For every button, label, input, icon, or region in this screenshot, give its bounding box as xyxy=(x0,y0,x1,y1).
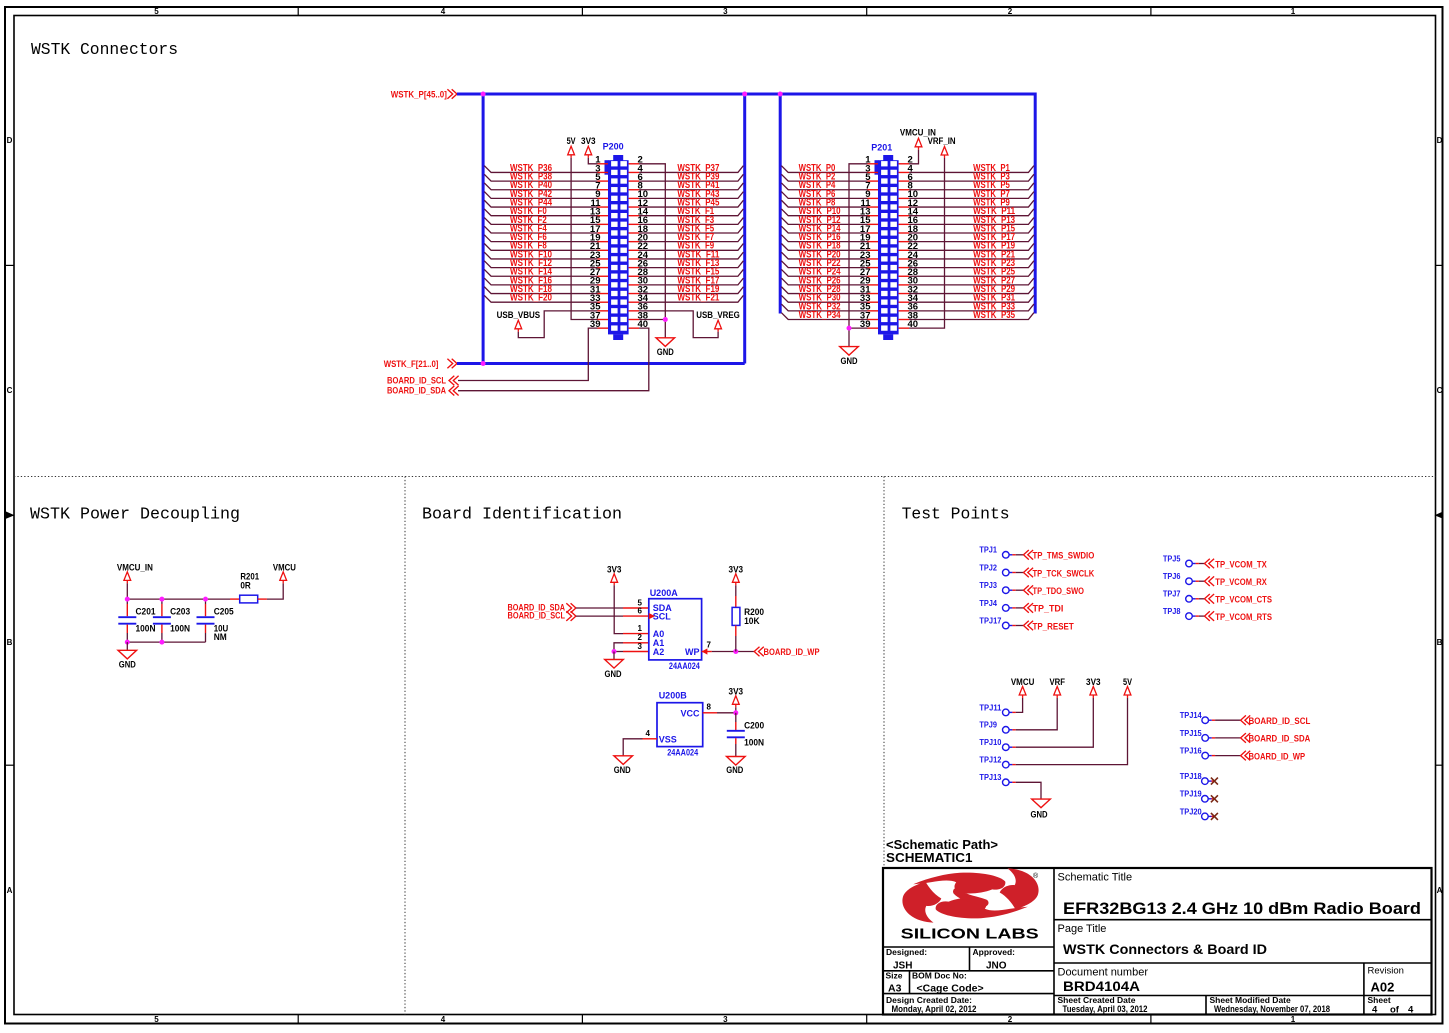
svg-text:TP_VCOM_TX: TP_VCOM_TX xyxy=(1215,559,1267,570)
wire VRF_IN to P201 pin 40 xyxy=(909,158,944,328)
test point TPJ14 net BOARD_ID_SCL xyxy=(1180,711,1311,727)
svg-text:C200: C200 xyxy=(744,721,764,731)
power symbol VMCU xyxy=(273,562,296,583)
svg-text:U200B: U200B xyxy=(659,690,688,700)
svg-text:7: 7 xyxy=(707,641,712,650)
svg-text:TPJ16: TPJ16 xyxy=(1180,747,1203,756)
svg-text:TPJ2: TPJ2 xyxy=(979,563,997,572)
wire WP to BOARD_ID_WP xyxy=(702,651,755,653)
wire WSTK_P14 (P201 pin 17) xyxy=(781,223,867,234)
wire WSTK_F8 (P200 pin 21) xyxy=(484,241,597,252)
port BOARD_ID_SCL xyxy=(387,375,459,386)
svg-text:C201: C201 xyxy=(136,607,156,617)
test point TPJ8 net TP_VCOM_RTS xyxy=(1163,607,1272,623)
svg-text:BOARD_ID_SDA: BOARD_ID_SDA xyxy=(1249,734,1311,745)
wire WSTK_P39 (P200 pin 6) xyxy=(639,172,743,183)
test point TPJ5 net TP_VCOM_TX xyxy=(1163,554,1267,570)
power symbol 5V at P200 xyxy=(567,136,576,158)
wire WSTK_P35 (P201 pin 38) xyxy=(909,310,1034,321)
wire WSTK_F15 (P200 pin 28) xyxy=(639,267,743,278)
svg-text:of: of xyxy=(1390,1005,1400,1016)
power symbol 3V3 at U200A address xyxy=(607,564,622,585)
svg-text:TP_TCK_SWCLK: TP_TCK_SWCLK xyxy=(1033,568,1095,579)
svg-text:SCHEMATIC1: SCHEMATIC1 xyxy=(886,851,973,865)
svg-text:Sheet: Sheet xyxy=(1368,995,1391,1005)
wire WSTK_P43 (P200 pin 10) xyxy=(639,189,743,200)
wire decoupling ground rail xyxy=(127,641,205,643)
wire P200 pin 40 to BOARD_ID_SDA xyxy=(458,328,649,391)
test point TPJ10 wire to 3V3 xyxy=(979,698,1093,751)
svg-text:WSTK_F[21..0]: WSTK_F[21..0] xyxy=(384,359,439,370)
wire P200 pin 38 to GND net xyxy=(639,319,665,321)
svg-text:<Schematic Path>: <Schematic Path> xyxy=(886,838,998,852)
pin numbers U200A xyxy=(638,598,712,651)
silicon labs logo xyxy=(901,868,1039,942)
capacitor C200 xyxy=(727,713,764,757)
wire WSTK_F16 (P200 pin 29) xyxy=(484,275,597,286)
svg-text:VRF_IN: VRF_IN xyxy=(928,136,956,146)
ground symbol GND at C200 xyxy=(726,757,745,776)
wire WSTK_P42 (P200 pin 9) xyxy=(484,189,597,200)
svg-text:A: A xyxy=(7,886,13,895)
wire P200 pin 39 to BOARD_ID_SCL xyxy=(458,328,598,380)
svg-text:4: 4 xyxy=(1408,1005,1414,1016)
test point TPJ12 wire to 5V xyxy=(979,698,1127,768)
wire WSTK_F7 (P200 pin 20) xyxy=(639,232,743,243)
connector P201 body xyxy=(875,155,899,340)
svg-text:GND: GND xyxy=(119,660,136,670)
svg-text:Board Identification: Board Identification xyxy=(422,505,622,524)
wire WSTK_P45 (P200 pin 12) xyxy=(639,197,743,208)
svg-text:GND: GND xyxy=(657,347,674,357)
svg-text:NM: NM xyxy=(214,632,227,642)
bus vertical bar P201 right xyxy=(1034,93,1037,314)
svg-text:TP_TDO_SWO: TP_TDO_SWO xyxy=(1033,586,1085,597)
power symbol 3V3 test point xyxy=(1086,677,1101,698)
svg-text:C203: C203 xyxy=(170,607,190,617)
svg-text:BOARD_ID_WP: BOARD_ID_WP xyxy=(764,647,821,658)
svg-text:1: 1 xyxy=(1291,1015,1296,1024)
power symbol 5V test point xyxy=(1123,677,1132,698)
schematic path text xyxy=(886,838,998,865)
capacitor C201 xyxy=(118,599,155,642)
svg-text:Wednesday, November 07, 2018: Wednesday, November 07, 2018 xyxy=(1214,1004,1330,1014)
svg-text:BOARD_ID_SCL: BOARD_ID_SCL xyxy=(1249,716,1311,727)
svg-text:Schematic Title: Schematic Title xyxy=(1058,872,1133,884)
test point TPJ19 no connect xyxy=(1180,790,1218,803)
svg-text:2: 2 xyxy=(1008,1015,1013,1024)
center marker arrow left xyxy=(6,512,15,519)
wire WSTK_P44 (P200 pin 11) xyxy=(484,197,597,208)
svg-text:GND: GND xyxy=(614,765,631,775)
svg-text:U200A: U200A xyxy=(650,588,679,598)
wire WSTK_F1 (P200 pin 14) xyxy=(639,206,743,217)
svg-text:TPJ10: TPJ10 xyxy=(979,738,1002,747)
svg-text:VCC: VCC xyxy=(680,708,700,718)
bus junction dots xyxy=(481,92,783,367)
center marker arrow right xyxy=(1435,512,1444,519)
resistor R200 xyxy=(732,585,764,651)
wire WSTK_F14 (P200 pin 27) xyxy=(484,267,597,278)
wire WSTK_F2 (P200 pin 15) xyxy=(484,215,597,226)
wire WSTK_P8 (P201 pin 11) xyxy=(781,197,867,208)
svg-text:WSTK Connectors & Board ID: WSTK Connectors & Board ID xyxy=(1063,941,1267,957)
svg-text:WSTK_P34: WSTK_P34 xyxy=(799,310,841,321)
junction WP R200 xyxy=(733,649,738,654)
wire WSTK_F13 (P200 pin 26) xyxy=(639,258,743,269)
svg-text:GND: GND xyxy=(1031,810,1048,820)
wire WSTK_P21 (P201 pin 24) xyxy=(909,249,1034,260)
svg-text:WSTK_P[45..0]: WSTK_P[45..0] xyxy=(391,89,447,100)
svg-text:TPJ12: TPJ12 xyxy=(979,756,1002,765)
svg-text:A: A xyxy=(1437,886,1443,895)
svg-text:VMCU_IN: VMCU_IN xyxy=(117,562,153,572)
wire USB_VREG to P200 pin 36 xyxy=(639,311,718,338)
svg-text:2: 2 xyxy=(1008,7,1013,16)
wire BOARD_ID_SDA to pin 5 xyxy=(576,607,649,609)
ground symbol GND decoupling xyxy=(118,642,137,669)
bus vertical bar P201 left xyxy=(779,94,782,314)
ground symbol GND at TPJ13 xyxy=(1031,799,1051,819)
wire VMCU_IN rail xyxy=(127,583,230,599)
svg-text:A3: A3 xyxy=(888,983,902,995)
svg-text:<Cage Code>: <Cage Code> xyxy=(917,983,984,995)
svg-text:TPJ15: TPJ15 xyxy=(1180,729,1203,738)
svg-text:A2: A2 xyxy=(653,647,665,657)
wire WSTK_P11 (P201 pin 14) xyxy=(909,206,1034,217)
wire WSTK_P28 (P201 pin 31) xyxy=(781,284,867,295)
wire WSTK_P29 (P201 pin 32) xyxy=(909,284,1034,295)
ic U200A xyxy=(649,588,702,671)
svg-text:8: 8 xyxy=(707,703,712,712)
test point TPJ7 net TP_VCOM_CTS xyxy=(1163,590,1272,606)
svg-text:VSS: VSS xyxy=(659,735,677,745)
power symbol VMCU_IN decoupling xyxy=(117,562,153,583)
wire 3V3 to P200 pin 1 xyxy=(588,158,597,164)
wire WSTK_P30 (P201 pin 33) xyxy=(781,293,867,304)
ground symbol GND at U200A xyxy=(605,652,624,679)
wire WSTK_P18 (P201 pin 21) xyxy=(781,241,867,252)
svg-text:TP_TDI: TP_TDI xyxy=(1033,604,1064,615)
svg-text:SILICON LABS: SILICON LABS xyxy=(901,926,1039,943)
svg-text:BRD4104A: BRD4104A xyxy=(1063,979,1140,994)
wire WSTK_P15 (P201 pin 18) xyxy=(909,223,1034,234)
svg-text:Designed:: Designed: xyxy=(886,947,927,957)
port BOARD_ID_SDA to U200A xyxy=(508,602,576,613)
wire WSTK_P31 (P201 pin 34) xyxy=(909,293,1034,304)
svg-text:WSTK Connectors: WSTK Connectors xyxy=(31,40,178,59)
svg-text:4: 4 xyxy=(646,729,651,738)
connector P200 pin stubs xyxy=(598,164,640,328)
test point TPJ16 net BOARD_ID_WP xyxy=(1180,747,1306,763)
test point TPJ13 to GND xyxy=(979,773,1041,799)
wire WSTK_P36 (P200 pin 3) xyxy=(484,163,597,174)
ground symbol GND at P201 xyxy=(840,347,859,366)
wire WSTK_P4 (P201 pin 7) xyxy=(781,180,867,191)
svg-text:6: 6 xyxy=(638,606,643,615)
power symbol USB_VREG xyxy=(696,310,740,332)
wire WSTK_P26 (P201 pin 29) xyxy=(781,275,867,286)
wire WSTK_F11 (P200 pin 24) xyxy=(639,249,743,260)
svg-text:TPJ18: TPJ18 xyxy=(1180,772,1203,781)
ground symbol GND at U200B VSS xyxy=(614,756,633,775)
bus vertical bar P200 right xyxy=(743,94,746,364)
wire VMCU_IN to P201 pin 2 xyxy=(909,150,918,164)
bus entry chevron WSTK_F xyxy=(447,359,457,369)
svg-text:GND: GND xyxy=(841,356,858,366)
connector P200 pin numbers xyxy=(590,155,649,330)
port BOARD_ID_SDA xyxy=(387,386,459,397)
svg-text:TPJ7: TPJ7 xyxy=(1163,590,1181,599)
svg-text:Revision: Revision xyxy=(1368,966,1404,977)
svg-text:Approved:: Approved: xyxy=(973,947,1016,957)
bus WSTK_F[21..0] horizontal xyxy=(457,362,745,365)
connector P201 pin numbers xyxy=(860,155,919,330)
svg-text:3: 3 xyxy=(638,642,643,651)
wire WSTK_P22 (P201 pin 25) xyxy=(781,258,867,269)
svg-text:TP_VCOM_RX: TP_VCOM_RX xyxy=(1215,577,1267,588)
wire VCC to 3V3 xyxy=(703,707,736,713)
svg-text:D: D xyxy=(7,136,13,145)
power symbol VMCU_IN at P201 xyxy=(900,128,936,150)
wire WSTK_P34 (P201 pin 37) xyxy=(781,310,867,321)
svg-text:D: D xyxy=(1437,136,1443,145)
svg-text:TPJ8: TPJ8 xyxy=(1163,607,1181,616)
wire WSTK_F21 (P200 pin 34) xyxy=(639,293,743,304)
connector P201 pin stubs xyxy=(868,164,910,328)
svg-text:TPJ4: TPJ4 xyxy=(979,599,997,608)
capacitor C203 xyxy=(153,599,190,642)
test point TPJ20 no connect xyxy=(1180,807,1218,820)
title block frame xyxy=(883,868,1432,1015)
wire WSTK_F4 (P200 pin 17) xyxy=(484,223,597,234)
svg-text:2: 2 xyxy=(638,633,643,642)
svg-text:Monday, April 02, 2012: Monday, April 02, 2012 xyxy=(892,1004,977,1014)
svg-text:100N: 100N xyxy=(170,623,190,633)
wire VSS to GND xyxy=(623,739,657,756)
junction dots decoupling xyxy=(125,597,208,645)
svg-text:WP: WP xyxy=(685,647,700,657)
pin numbers U200B xyxy=(646,703,712,739)
svg-text:TP_VCOM_RTS: TP_VCOM_RTS xyxy=(1215,612,1272,623)
svg-text:A02: A02 xyxy=(1371,980,1395,995)
wire WSTK_F9 (P200 pin 22) xyxy=(639,241,743,252)
svg-text:4: 4 xyxy=(441,1015,446,1024)
svg-text:100N: 100N xyxy=(136,623,156,633)
svg-text:WSTK_F21: WSTK_F21 xyxy=(677,293,719,304)
svg-text:TP_TMS_SWDIO: TP_TMS_SWDIO xyxy=(1033,551,1095,562)
svg-text:TPJ13: TPJ13 xyxy=(979,773,1002,782)
svg-text:GND: GND xyxy=(726,765,743,775)
wire WSTK_P16 (P201 pin 19) xyxy=(781,232,867,243)
svg-text:3: 3 xyxy=(723,1015,728,1024)
wire WSTK_F5 (P200 pin 18) xyxy=(639,223,743,234)
wire WSTK_F17 (P200 pin 30) xyxy=(639,275,743,286)
title block texts xyxy=(886,872,1422,1016)
wire WSTK_F3 (P200 pin 16) xyxy=(639,215,743,226)
wire WSTK_P20 (P201 pin 23) xyxy=(781,249,867,260)
port BOARD_ID_WP xyxy=(754,647,820,658)
svg-text:TPJ19: TPJ19 xyxy=(1180,790,1203,799)
wire WSTK_P38 (P200 pin 5) xyxy=(484,172,597,183)
port BOARD_ID_SCL to U200A xyxy=(508,611,576,622)
power symbol VRF test point xyxy=(1049,677,1065,698)
wire 3V3 to U200A pin 1 A0 xyxy=(614,585,649,633)
svg-text:WSTK Power Decoupling: WSTK Power Decoupling xyxy=(30,505,240,524)
pin arrow WP input xyxy=(702,648,708,654)
bus WSTK_P[45..0] horizontal xyxy=(457,93,1035,96)
svg-text:TPJ17: TPJ17 xyxy=(979,616,1002,625)
wire WSTK_F20 (P200 pin 33) xyxy=(484,293,597,304)
power symbol USB_VBUS xyxy=(497,310,540,332)
svg-text:Tuesday, April 03, 2012: Tuesday, April 03, 2012 xyxy=(1063,1004,1148,1014)
section divider dashed lines xyxy=(14,477,1436,1015)
power symbol VRF_IN at P201 xyxy=(928,136,956,158)
test point TPJ3 net TP_TDO_SWO xyxy=(979,581,1084,597)
svg-text:TPJ1: TPJ1 xyxy=(979,546,997,555)
svg-text:B: B xyxy=(1437,638,1443,647)
wire WSTK_F12 (P200 pin 25) xyxy=(484,258,597,269)
test point TPJ15 net BOARD_ID_SDA xyxy=(1180,729,1311,745)
wire WSTK_P27 (P201 pin 30) xyxy=(909,275,1034,286)
wire P201 pin 39 to GND xyxy=(849,327,868,329)
svg-text:Size: Size xyxy=(886,971,903,981)
wire P200 pin 2 to GND xyxy=(639,164,665,338)
wire WSTK_P9 (P201 pin 12) xyxy=(909,197,1034,208)
junction P201 GND xyxy=(847,326,852,331)
junction P200 GND xyxy=(663,317,668,322)
test point TPJ18 no connect xyxy=(1180,772,1218,785)
wire WSTK_F10 (P200 pin 23) xyxy=(484,249,597,260)
svg-text:B: B xyxy=(7,638,13,647)
connector P200 body xyxy=(605,155,629,340)
svg-text:WSTK_P35: WSTK_P35 xyxy=(973,310,1015,321)
test point TPJ6 net TP_VCOM_RX xyxy=(1163,572,1267,588)
wire R201 to VMCU xyxy=(267,583,283,599)
svg-text:100N: 100N xyxy=(744,738,764,748)
resistor R201 xyxy=(230,571,267,603)
svg-text:0R: 0R xyxy=(240,580,251,590)
wire WSTK_P6 (P201 pin 9) xyxy=(781,189,867,200)
wire WSTK_P1 (P201 pin 4) xyxy=(909,163,1034,174)
bus entry chevron WSTK_P xyxy=(447,89,457,99)
wire WSTK_P10 (P201 pin 13) xyxy=(781,206,867,217)
svg-text:C: C xyxy=(7,386,13,395)
svg-text:TPJ20: TPJ20 xyxy=(1180,807,1203,816)
power symbol VMCU test point xyxy=(1011,677,1035,698)
svg-text:C205: C205 xyxy=(214,607,234,617)
wire WSTK_P7 (P201 pin 10) xyxy=(909,189,1034,200)
svg-text:P201: P201 xyxy=(871,143,892,153)
bus vertical bar P200 left xyxy=(482,94,485,364)
svg-text:4: 4 xyxy=(441,7,446,16)
ic U200B xyxy=(657,690,703,757)
svg-text:P200: P200 xyxy=(603,142,624,152)
svg-text:Test Points: Test Points xyxy=(902,505,1010,524)
svg-text:Page Title: Page Title xyxy=(1058,923,1107,935)
wire WSTK_P32 (P201 pin 35) xyxy=(781,301,867,312)
svg-text:WSTK_F20: WSTK_F20 xyxy=(510,293,552,304)
wire WSTK_P17 (P201 pin 20) xyxy=(909,232,1034,243)
wire P201 pin 1 to GND xyxy=(849,164,868,347)
svg-text:Document number: Document number xyxy=(1058,967,1149,979)
svg-text:3: 3 xyxy=(723,7,728,16)
svg-text:1: 1 xyxy=(1291,7,1296,16)
svg-text:BOARD_ID_WP: BOARD_ID_WP xyxy=(1249,751,1306,762)
wire WSTK_P19 (P201 pin 22) xyxy=(909,241,1034,252)
wire WSTK_P24 (P201 pin 27) xyxy=(781,267,867,278)
svg-text:5: 5 xyxy=(154,7,159,16)
svg-text:10K: 10K xyxy=(744,616,760,626)
wire WSTK_P0 (P201 pin 3) xyxy=(781,163,867,174)
wire WSTK_P40 (P200 pin 7) xyxy=(484,180,597,191)
svg-text:1: 1 xyxy=(638,624,643,633)
wire U200A pin 3 A2 to GND xyxy=(614,651,649,653)
wire 5V to P200 pin 37 xyxy=(571,158,597,320)
wire WSTK_P13 (P201 pin 16) xyxy=(909,215,1034,226)
wire WSTK_F19 (P200 pin 32) xyxy=(639,284,743,295)
wire WSTK_P5 (P201 pin 8) xyxy=(909,180,1034,191)
wire WSTK_P33 (P201 pin 36) xyxy=(909,301,1034,312)
svg-text:SCL: SCL xyxy=(653,611,672,621)
svg-text:TP_VCOM_CTS: TP_VCOM_CTS xyxy=(1215,595,1272,606)
ground symbol GND at P200 xyxy=(656,338,675,357)
svg-text:24AA024: 24AA024 xyxy=(669,661,700,671)
junction U200A ground xyxy=(612,649,617,654)
power symbol 3V3 at R200 xyxy=(729,564,744,585)
power symbol 3V3 at U200B xyxy=(729,687,744,708)
test point TPJ9 wire to VRF xyxy=(979,698,1057,733)
power symbol 3V3 at P200 xyxy=(581,136,596,158)
svg-text:TPJ14: TPJ14 xyxy=(1180,711,1203,720)
capacitor C205 xyxy=(197,599,234,642)
svg-text:TPJ9: TPJ9 xyxy=(979,721,997,730)
wire WSTK_P3 (P201 pin 6) xyxy=(909,172,1034,183)
test point TPJ4 net TP_TDI xyxy=(979,599,1063,615)
wire WSTK_F0 (P200 pin 13) xyxy=(484,206,597,217)
wire WSTK_P2 (P201 pin 5) xyxy=(781,172,867,183)
svg-text:EFR32BG13 2.4 GHz 10 dBm Radio: EFR32BG13 2.4 GHz 10 dBm Radio Board xyxy=(1063,899,1421,918)
wire WSTK_P25 (P201 pin 28) xyxy=(909,267,1034,278)
wire WSTK_F6 (P200 pin 19) xyxy=(484,232,597,243)
svg-text:VMCU: VMCU xyxy=(273,562,296,572)
wire WSTK_P23 (P201 pin 26) xyxy=(909,258,1034,269)
svg-text:BOARD_ID_SDA: BOARD_ID_SDA xyxy=(387,386,446,397)
junction VCC C200 xyxy=(733,710,738,715)
svg-text:BOM Doc No:: BOM Doc No: xyxy=(912,971,967,981)
test point TPJ11 wire to VMCU xyxy=(979,698,1022,716)
svg-text:®: ® xyxy=(1033,872,1039,880)
pin arrow SCL input xyxy=(649,613,655,619)
wire U200A pin 2 A1 to GND xyxy=(614,643,649,652)
svg-text:TPJ6: TPJ6 xyxy=(1163,572,1181,581)
wire WSTK_P12 (P201 pin 15) xyxy=(781,215,867,226)
test point TPJ17 net TP_RESET xyxy=(979,616,1073,632)
svg-text:BOARD_ID_SCL: BOARD_ID_SCL xyxy=(508,611,566,622)
test point TPJ2 net TP_TCK_SWCLK xyxy=(979,563,1094,579)
svg-text:5: 5 xyxy=(154,1015,159,1024)
svg-text:C: C xyxy=(1437,386,1443,395)
svg-text:4: 4 xyxy=(1372,1005,1378,1016)
svg-text:GND: GND xyxy=(605,669,622,679)
svg-text:JNO: JNO xyxy=(986,961,1007,972)
svg-text:TPJ11: TPJ11 xyxy=(979,703,1002,712)
svg-text:TPJ5: TPJ5 xyxy=(1163,554,1181,563)
svg-text:TP_RESET: TP_RESET xyxy=(1033,621,1074,632)
wire WSTK_F18 (P200 pin 31) xyxy=(484,284,597,295)
wire WSTK_P37 (P200 pin 4) xyxy=(639,163,743,174)
wire WSTK_P41 (P200 pin 8) xyxy=(639,180,743,191)
